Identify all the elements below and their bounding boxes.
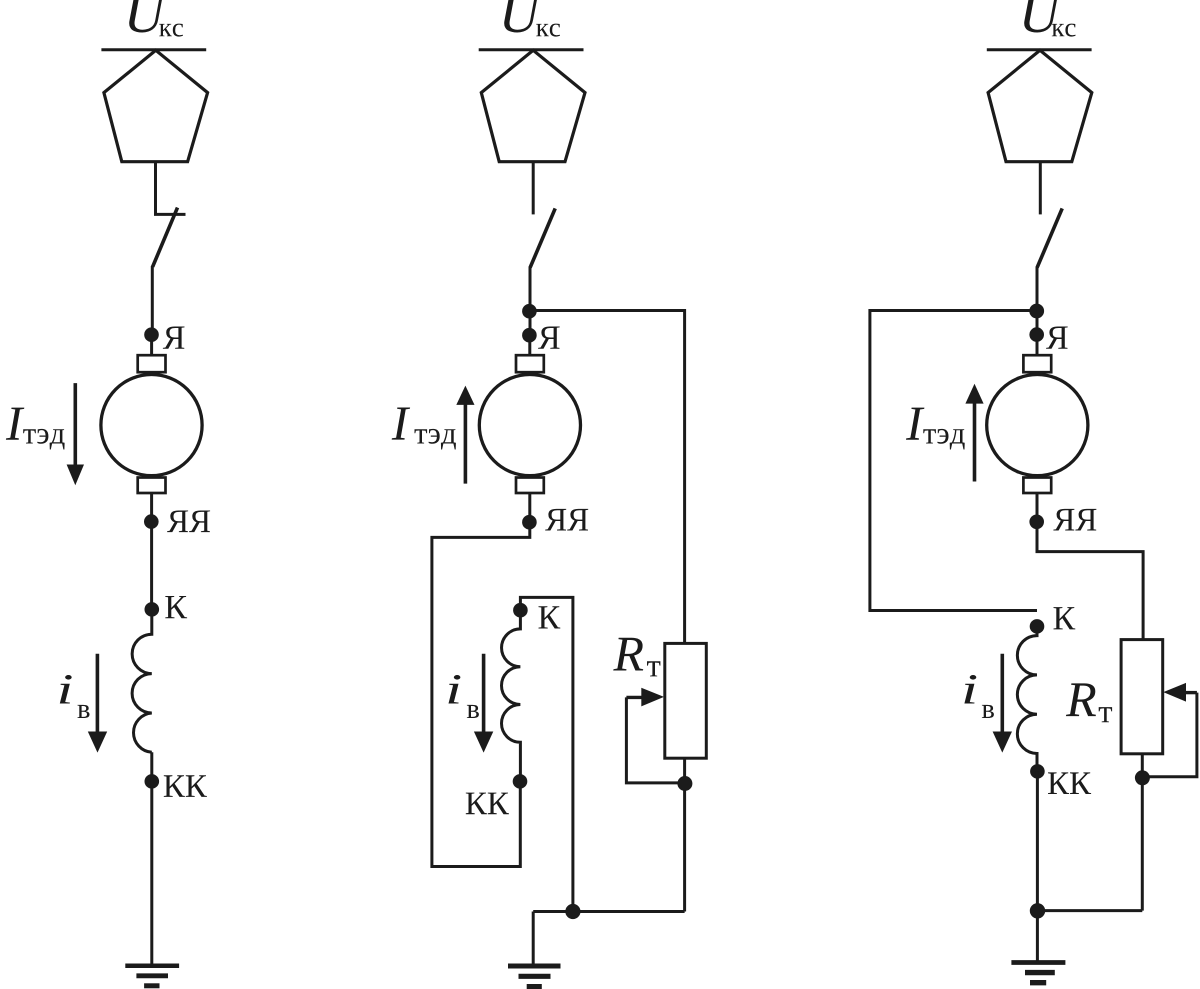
bottom junction node (right) [1030,903,1045,918]
wire motor to node ЯЯ (left) [150,493,153,529]
field winding inductor (middle) [502,610,521,781]
current arrow i_в down (left) [96,654,100,733]
ground (left) [125,964,179,969]
label КК (middle) [466,793,509,815]
wire ЯЯ to rheostat top (right) [1037,529,1143,639]
wire rheostat bottom (right) [1141,754,1144,911]
label К (middle) [539,606,561,628]
wire branch bypass to node К (right) [870,311,1037,611]
label i_в (right) [964,675,976,704]
label Я (right) [1046,327,1068,349]
motor M3 brush box top (right) [1023,355,1051,372]
current arrow i_в down (right) [1000,654,1004,733]
node К (left) [145,602,160,617]
motor M2 armature circle (middle) [479,375,580,476]
node Я (left) [144,327,159,342]
label ЯЯ (right) [1053,509,1096,531]
ground stem (middle) [532,912,535,965]
motor M2 brush box bottom (middle) [516,478,544,494]
current arrow I_ТЭД up (right) [973,403,977,482]
wire node Я to motor (right) [1036,341,1039,356]
label КК (left) [164,775,207,797]
wire switch to branch node (middle) [529,267,532,342]
pantograph contact bar (left) [101,48,206,51]
pantograph contact bar (right) [987,48,1092,51]
label I_ТЭД (middle) [392,408,410,440]
bottom wire (right) [1037,909,1142,912]
label КК (right) [1048,772,1091,794]
label R_т (middle) [613,638,643,671]
switch blade (left) [153,208,178,267]
ground (middle) [508,964,561,969]
wire pantograph to switch (left) [156,162,186,215]
label U_кс (right) [1024,0,1062,33]
wire switch to branch node (right) [1036,267,1039,342]
wiper return wire (right) [1146,693,1197,777]
node Я (right) [1029,327,1044,342]
rheostat R_т body (right) [1121,640,1163,754]
motor M1 armature circle (left) [101,375,202,476]
rheostat wiper arrow (middle) [626,696,645,699]
node Я (middle) [522,328,537,343]
branch junction node (right) [1029,304,1044,319]
field winding inductor (right) [1017,626,1037,771]
current arrow i_в down (middle) [482,654,486,733]
label ЯЯ (middle) [545,509,588,531]
wire motor to node ЯЯ (right) [1036,493,1039,530]
pantograph (left) [104,50,208,161]
label U_кс (left) [129,0,167,33]
wire branch to rheostat top (middle) [529,311,684,643]
wire inductor to ground (left) [150,752,153,964]
field winding inductor (left) [132,616,152,752]
current arrow I_ТЭД down (left) [74,383,78,466]
label Я (middle) [538,327,560,349]
label К (right) [1054,607,1076,629]
label ЯЯ (left) [167,511,210,533]
wire ЯЯ loop to node КК (middle) [432,522,530,866]
label I_ТЭД (left) [6,408,24,440]
rheostat bottom junction node (right) [1135,770,1150,785]
wire pantograph to switch (right) [1039,162,1042,215]
ground (right) [1011,960,1065,965]
node К (right) [1030,619,1045,634]
wire motor to node ЯЯ (middle) [528,493,531,524]
pantograph contact bar (middle) [479,48,584,51]
wire node ЯЯ to node К (left) [150,528,153,610]
label U_кс (middle) [504,0,542,33]
node ЯЯ (right) [1029,515,1044,530]
pantograph (middle) [481,50,585,161]
pantograph (right) [988,50,1092,161]
rheostat wiper arrow (right) [1184,691,1197,694]
label i_в (middle) [449,675,461,704]
node К (middle) [513,603,528,618]
label I_ТЭД (right) [906,408,924,440]
motor M1 brush box top (left) [138,355,166,372]
bottom wire (middle) [533,910,684,913]
wire rheostat bottom (middle) [683,758,686,911]
wire node К corner to bottom junction (middle) [520,597,573,911]
node ЯЯ (left) [144,514,159,529]
node ЯЯ (middle) [522,515,537,530]
wire node Я to motor (middle) [528,341,531,356]
rheostat bottom junction node (middle) [677,776,692,791]
motor M2 brush box top (middle) [516,355,544,372]
switch blade (right) [1037,208,1062,267]
wire switch to node Я (left) [151,266,154,335]
label i_в (left) [60,675,72,704]
branch junction node (middle) [522,304,537,319]
wire pantograph to switch (middle) [532,162,535,215]
bottom junction node (middle) [565,904,580,919]
current arrow I_ТЭД up (middle) [464,404,468,484]
label R_т (right) [1066,683,1096,716]
switch blade (middle) [530,208,555,267]
label Я (left) [163,327,185,349]
rheostat R_т body (middle) [665,643,707,758]
motor M3 armature circle (right) [987,375,1088,476]
wire node Я to motor (left) [150,341,153,356]
motor M1 brush box bottom (left) [138,478,166,494]
label К (left) [165,596,187,618]
node КК (right) [1030,764,1045,779]
wire node КК to ground (right) [1036,771,1039,960]
node КК (middle) [513,774,528,789]
motor M3 brush box bottom (right) [1023,478,1051,494]
wiper return wire (middle) [626,697,681,783]
node КК (left) [145,774,160,789]
